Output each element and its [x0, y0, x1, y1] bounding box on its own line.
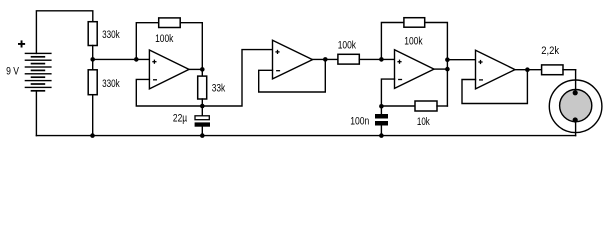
wire battery plus to top rail and down to R1: [36, 11, 92, 54]
wire U4 output: [515, 69, 542, 71]
dot C2 rail: [379, 133, 384, 138]
wire U2 voltage follower feedback loop: [259, 59, 326, 92]
op-amp U4 plus sign: [478, 60, 482, 64]
capacitor C2 100n: [380, 106, 382, 114]
dot speaker top terminal: [573, 90, 578, 95]
wire U2 output: [313, 58, 338, 60]
svg-text:2,2k: 2,2k: [541, 45, 559, 57]
resistor R7 10k: [381, 105, 415, 107]
bottom rail ground return: [36, 135, 575, 137]
wire R2 bottom to bottom rail: [92, 95, 94, 136]
svg-text:33k: 33k: [212, 83, 226, 95]
op-amp U3 plus sign: [397, 60, 401, 64]
svg-text:10k: 10k: [417, 116, 430, 128]
dot U3 plus node: [379, 57, 384, 62]
dot R2 bottom rail: [90, 133, 95, 138]
wire R5 to op-amp U3 plus input: [359, 58, 394, 60]
loudspeaker LS1 inner disc: [560, 90, 592, 122]
op-amp U2 plus sign: [275, 50, 279, 54]
op-amp U3 minus sign: [398, 79, 402, 80]
resistor R8 2.2k: [542, 65, 563, 75]
svg-text:100k: 100k: [404, 36, 423, 48]
op-amp U1 plus sign: [152, 60, 156, 64]
dot U4 output: [525, 67, 530, 72]
op-amp U4 minus sign: [479, 79, 483, 80]
dot C1 rail: [200, 133, 205, 138]
resistor R1 330k upper: [88, 22, 97, 46]
loudspeaker LS1 outer ring: [549, 80, 602, 133]
capacitor C1 22u electrolytic: [201, 106, 203, 116]
wire U3 output: [434, 68, 447, 70]
battery plus sign: [18, 40, 25, 47]
op-amp U1 minus sign: [153, 79, 157, 80]
dot 33k-22u node: [200, 104, 205, 109]
dot U2 output: [323, 57, 328, 62]
svg-text:100k: 100k: [155, 33, 174, 45]
dot 100k feedback tap: [134, 57, 139, 62]
wire R8 to loudspeaker: [563, 69, 576, 71]
svg-text:330k: 330k: [102, 29, 120, 41]
resistor R2 330k lower: [88, 70, 97, 95]
svg-text:330k: 330k: [102, 78, 120, 90]
wire C1 node to op-amp U2 plus input: [202, 50, 272, 106]
op-amp U2 minus sign: [276, 70, 280, 71]
wire R1 bottom to node A: [92, 46, 94, 70]
wire node A to op-amp U1 plus input: [93, 58, 150, 60]
wire U1 minus input loop: [136, 79, 202, 106]
node A dot: [90, 57, 95, 62]
svg-text:9 V: 9 V: [6, 65, 19, 77]
wire U3 output node to op-amp U4 plus input: [447, 59, 475, 61]
wire U4 voltage follower feedback loop: [462, 70, 527, 104]
resistor R3 100k feedback U1: [136, 23, 158, 60]
dot U3 minus node B: [379, 104, 384, 109]
dot U3 output to U4 tap: [445, 57, 450, 62]
wire U1 output: [189, 68, 202, 70]
wire into speaker top terminal: [575, 70, 577, 93]
svg-text:100k: 100k: [338, 40, 357, 52]
svg-text:100n: 100n: [350, 115, 369, 127]
dot U1 output: [200, 67, 205, 72]
wire battery minus to bottom rail: [35, 91, 37, 136]
battery BT1 9V: [25, 53, 52, 92]
op-amp U4: [476, 50, 516, 89]
resistor R4 33k: [201, 69, 203, 76]
wire U3 minus input to node B: [381, 79, 394, 106]
wire speaker bottom terminal to rail: [575, 120, 577, 136]
resistor R6 100k feedback U3: [381, 23, 404, 60]
svg-text:22µ: 22µ: [173, 113, 188, 125]
resistor R5 100k series: [338, 54, 359, 64]
op-amp U2: [273, 40, 313, 79]
dot speaker bottom terminal: [573, 117, 578, 122]
op-amp U3: [395, 50, 435, 89]
op-amp U1: [149, 50, 189, 89]
dot U3 output: [445, 67, 450, 72]
